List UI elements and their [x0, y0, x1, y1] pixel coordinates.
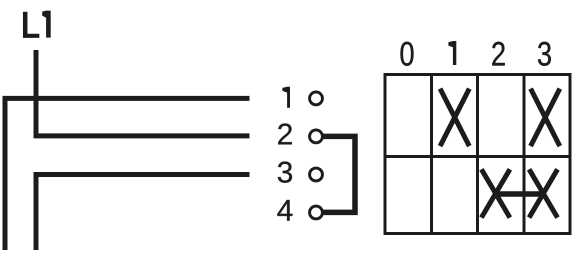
- wire terminal-3 line with vertical drop: [36, 175, 250, 251]
- net label L1 (digit 1): [42, 11, 51, 38]
- label terminal 3: [278, 162, 292, 183]
- header position 2: [492, 42, 504, 66]
- table column divider 1|2: [476, 75, 479, 234]
- contact circle terminal 2: [310, 130, 323, 143]
- header position 0: [401, 42, 414, 66]
- label terminal 1: [282, 87, 290, 108]
- contact circle terminal 3: [310, 168, 323, 181]
- contact X mark row2 position 3: [529, 169, 557, 217]
- contact circle terminal 1: [310, 92, 323, 105]
- wire bracket linking terminals 2 and 4: [324, 136, 356, 212]
- link dash between row2 X marks: [496, 191, 544, 196]
- switch position table outer frame: [385, 75, 570, 234]
- label terminal 4: [277, 200, 292, 221]
- wire from L1 down to terminal-2 line: [36, 50, 250, 136]
- table column divider 2|3: [523, 75, 526, 234]
- contact circle terminal 4: [310, 206, 323, 219]
- contact X mark row1 position 1: [440, 89, 469, 146]
- wire terminal-1 line with left vertical drop: [5, 98, 250, 250]
- table middle horizontal divider: [385, 155, 570, 158]
- table column divider 0|1: [430, 75, 433, 234]
- net label L1 (letter L): [24, 12, 39, 37]
- contact X mark row1 position 3: [531, 89, 560, 146]
- label terminal 2: [278, 123, 292, 144]
- contact X mark row2 position 2: [481, 169, 510, 217]
- header position 1: [448, 41, 456, 65]
- header position 3: [538, 42, 551, 66]
